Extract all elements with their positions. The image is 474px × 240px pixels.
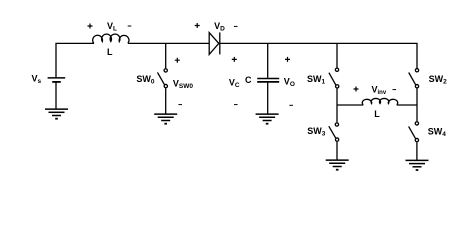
ground (below SW0) [154, 114, 177, 124]
diode VD [209, 32, 220, 54]
inductor L (input) [93, 34, 129, 43]
wire: inductor to diode anode [128, 42, 209, 44]
polarity + for VSW0 [175, 58, 180, 63]
polarity + for VD [195, 23, 200, 28]
polarity - for VD [234, 25, 238, 27]
wire: top rail T-junction down to capacitor C [267, 43, 269, 77]
polarity - for VSW0 [178, 104, 182, 106]
wire: SW1 to bridge left node [336, 89, 338, 105]
wire: top rail T-junction down to SW0 [165, 43, 167, 68]
wire: top rail from Vs corner to inductor L [56, 43, 94, 77]
ground (below SW3) [326, 160, 349, 170]
polarity + for VC [232, 57, 237, 62]
wire: bridge left node down to SW3 [336, 105, 338, 122]
wire: SW3 to ground [336, 142, 338, 160]
wire: SW2 to bridge right node [416, 88, 418, 105]
switch SW3 [329, 123, 339, 141]
wire: Vs negative terminal to ground [55, 82, 57, 109]
ground (below SW4) [406, 160, 429, 170]
switch SW1 [329, 68, 339, 88]
ground (below C) [256, 114, 279, 124]
polarity - for Vinv [393, 89, 397, 91]
switch SW0 [158, 69, 168, 88]
polarity - for VC [234, 104, 238, 106]
polarity + for VL [88, 24, 93, 29]
polarity + for Vinv [354, 87, 359, 92]
voltage source Vs (battery) [48, 78, 66, 82]
wire: bridge right node down to SW4 [416, 105, 418, 121]
polarity - for VL [128, 25, 132, 27]
wire: bridge left node to inverter inductor [337, 104, 363, 106]
switch SW4 [409, 122, 419, 142]
svg-text:C: C [245, 75, 252, 85]
wire: capacitor to ground [267, 83, 269, 115]
wire: inverter inductor to bridge right node [397, 104, 417, 106]
wire: SW0 to ground [165, 88, 167, 114]
capacitor C [257, 79, 279, 82]
switch SW2 [409, 69, 419, 88]
svg-text:L: L [107, 47, 113, 57]
ground (below Vs) [45, 109, 68, 119]
wire: top rail T-junction down to SW1 [336, 43, 338, 67]
wire: SW4 to ground [416, 142, 418, 160]
wire: diode cathode along top rail to SW2 branch corner [220, 43, 417, 68]
inductor L (inverter) [362, 98, 397, 104]
svg-text:L: L [374, 109, 380, 119]
polarity + for VO [285, 57, 290, 62]
polarity - for VO [289, 104, 293, 106]
